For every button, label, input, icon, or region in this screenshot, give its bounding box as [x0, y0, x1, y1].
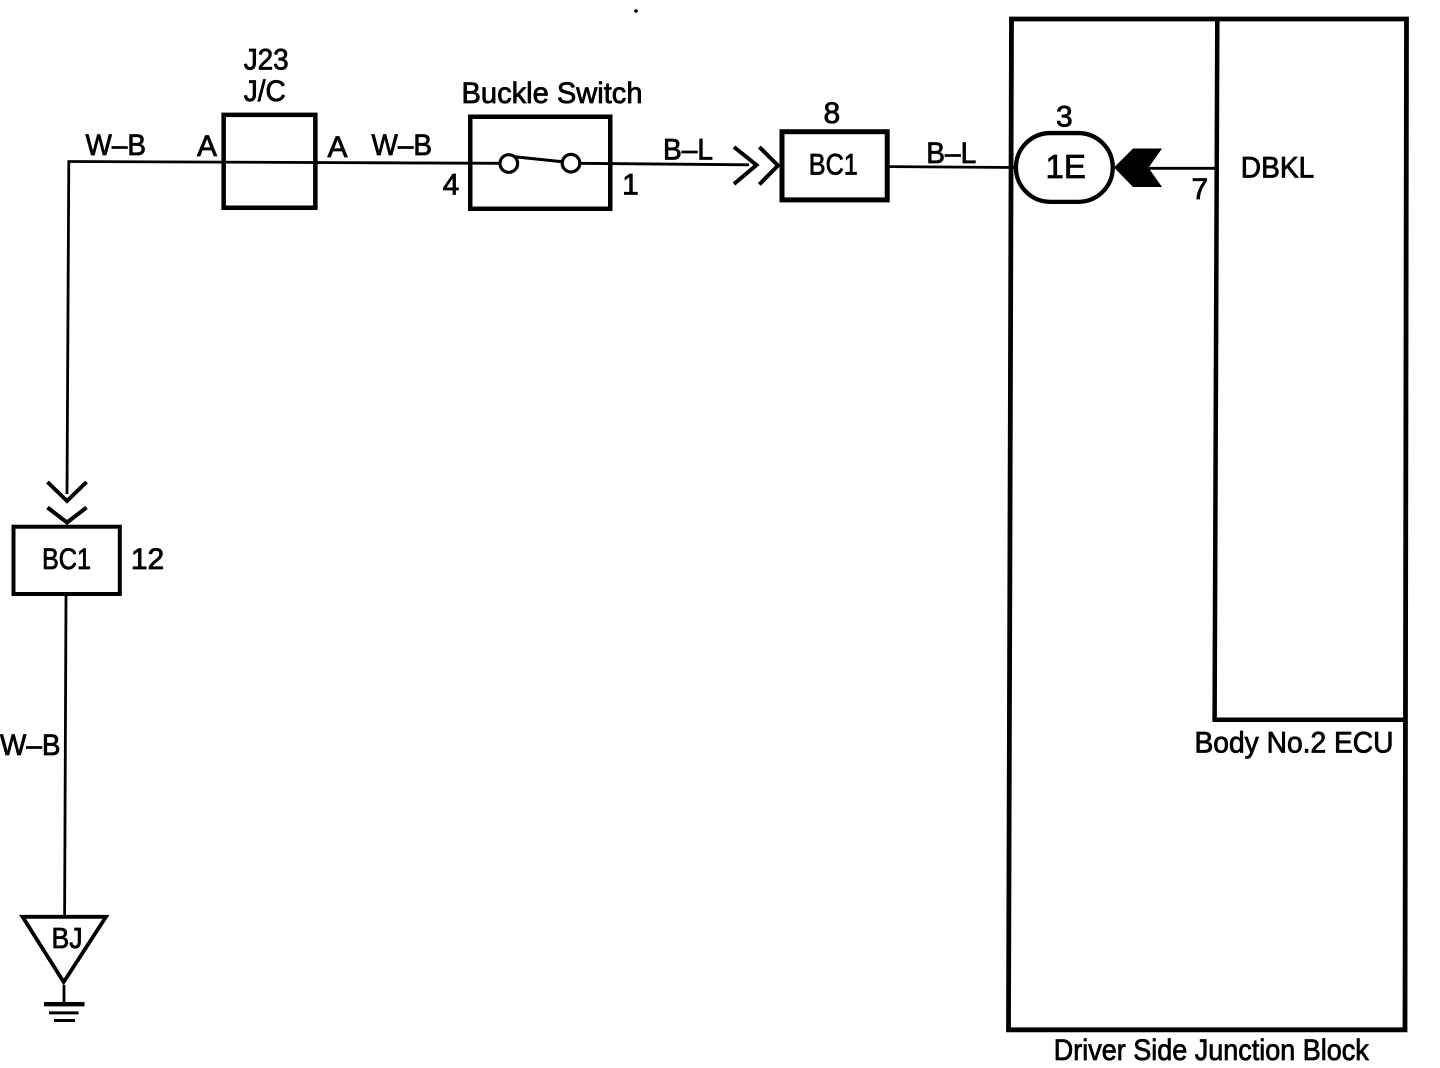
switch blade [515, 157, 563, 162]
junction connector J23 J/C box [224, 115, 316, 208]
svg-text:A: A [327, 131, 347, 164]
wire BC1 to BJ triangle [65, 596, 66, 916]
ground bar 2 [49, 1011, 79, 1014]
svg-text:W–B: W–B [372, 129, 433, 162]
connector BC1 box left [14, 527, 120, 594]
svg-text:1: 1 [622, 169, 639, 202]
switch contact right circle [562, 154, 580, 172]
body ECU box bottom edge [1212, 717, 1404, 722]
connector chevron down 1 [48, 482, 87, 501]
svg-text:Buckle Switch: Buckle Switch [462, 77, 643, 110]
arrow to 1E filled [1114, 149, 1162, 188]
switch contact left circle [500, 155, 518, 173]
wire from switch through box edge to connector chevrons [580, 163, 749, 165]
wire BC1 to 1E [890, 165, 1017, 169]
svg-text:BJ: BJ [52, 923, 83, 955]
svg-text:Driver Side Junction Block: Driver Side Junction Block [1054, 1034, 1370, 1067]
connector BC1 box top [782, 132, 887, 200]
svg-text:1E: 1E [1046, 148, 1086, 185]
ground bar 1 [44, 1002, 85, 1006]
svg-text:J23: J23 [244, 43, 289, 76]
connector chevron down 2 [48, 508, 87, 523]
svg-text:B–L: B–L [926, 137, 976, 170]
wire vertical left drop [67, 160, 69, 494]
wire BJ apex to ground [63, 985, 66, 1003]
connector stadium 1E [1016, 133, 1113, 202]
svg-text:J/C: J/C [244, 75, 286, 108]
body ECU box left edge [1215, 19, 1218, 720]
svg-text:B–L: B–L [663, 133, 713, 166]
svg-text:A: A [197, 130, 217, 163]
svg-text:7: 7 [1191, 173, 1208, 206]
driver side junction block outer box [1009, 19, 1407, 1030]
wire W-B horizontal top-left to buckle switch [69, 162, 500, 164]
svg-text:Body No.2 ECU: Body No.2 ECU [1195, 727, 1394, 760]
svg-text:3: 3 [1056, 101, 1073, 134]
stray dot [634, 9, 638, 13]
ground bar 3 [54, 1019, 75, 1022]
connector chevron 2 [759, 147, 778, 185]
svg-text:DBKL: DBKL [1241, 151, 1315, 184]
buckle switch box [470, 117, 610, 209]
ground triangle BJ [23, 917, 107, 982]
connector chevron 1 [734, 147, 757, 184]
svg-text:W–B: W–B [0, 729, 61, 762]
wire arrow to ECU [1149, 167, 1216, 170]
svg-text:12: 12 [131, 543, 164, 576]
svg-text:BC1: BC1 [809, 149, 858, 182]
svg-text:8: 8 [823, 97, 840, 130]
svg-text:4: 4 [443, 169, 460, 202]
svg-text:W–B: W–B [86, 129, 147, 162]
svg-text:BC1: BC1 [42, 543, 91, 576]
